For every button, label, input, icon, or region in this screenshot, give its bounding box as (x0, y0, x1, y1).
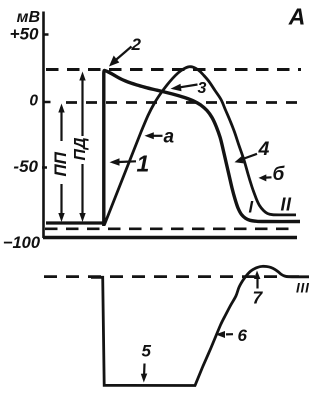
svg-text:а: а (164, 127, 175, 148)
svg-text:А: А (288, 4, 306, 30)
svg-text:ПД: ПД (72, 137, 89, 161)
svg-text:7: 7 (253, 288, 264, 308)
svg-text:3: 3 (198, 80, 207, 97)
svg-text:б: б (273, 164, 286, 185)
svg-text:-50: -50 (13, 157, 38, 176)
svg-text:0: 0 (29, 93, 38, 110)
svg-text:+50: +50 (10, 25, 39, 44)
svg-text:мВ: мВ (17, 9, 40, 26)
svg-text:−100: −100 (3, 234, 41, 252)
svg-text:ПП: ПП (51, 151, 70, 176)
svg-text:II: II (281, 195, 293, 215)
svg-text:6: 6 (238, 326, 248, 345)
svg-text:III: III (296, 281, 310, 296)
svg-text:4: 4 (258, 138, 270, 160)
svg-text:2: 2 (131, 35, 142, 54)
svg-text:I: I (249, 199, 254, 217)
svg-text:1: 1 (137, 151, 150, 177)
svg-text:5: 5 (142, 342, 152, 361)
